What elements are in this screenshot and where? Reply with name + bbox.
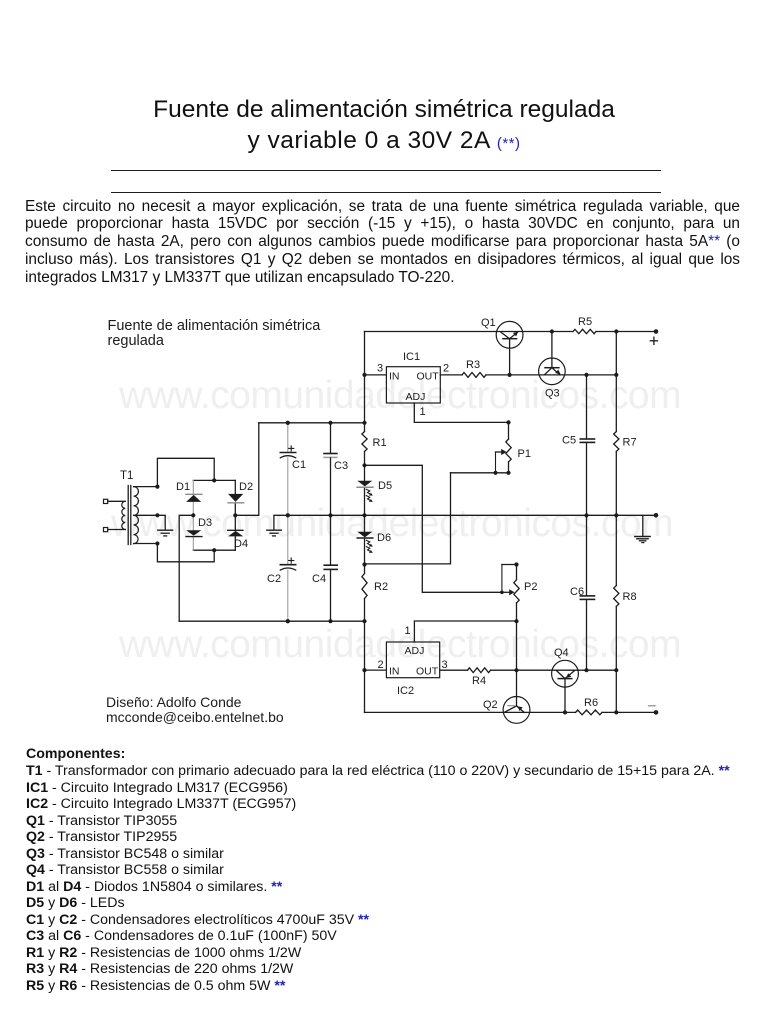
node C6 bottom	[584, 668, 588, 672]
wire primary bottom lead	[108, 529, 126, 531]
svg-text:Diseño: Adolfo Conde: Diseño: Adolfo Conde	[106, 694, 242, 710]
svg-text:D1: D1	[176, 481, 190, 493]
wire secondary top lead to bridge	[134, 458, 215, 486]
capacitor C6	[580, 515, 594, 670]
component line R1-R2	[26, 945, 301, 961]
component line Q3	[26, 846, 224, 862]
transistor Q3	[539, 332, 566, 385]
node R5 output junction	[614, 329, 618, 333]
IC1 regulator box	[386, 367, 440, 403]
node P1 wiper bottom	[493, 471, 497, 475]
title line 2	[0, 127, 768, 155]
wire top positive rail	[365, 331, 657, 333]
svg-text:R1: R1	[373, 437, 387, 449]
label minus output	[649, 705, 656, 707]
resistor R2	[362, 574, 367, 599]
svg-text:OUT: OUT	[416, 666, 439, 678]
transistor Q1	[496, 321, 523, 375]
wire P2 down to IC2 out node	[516, 621, 518, 670]
svg-text:D4: D4	[234, 538, 248, 550]
svg-text:OUT: OUT	[417, 371, 440, 383]
resistor R1	[362, 432, 367, 452]
diode D3	[186, 530, 202, 536]
svg-text:1: 1	[405, 625, 411, 637]
node P2 bottom	[514, 619, 518, 623]
component line R5-R6	[26, 978, 285, 994]
node C1 C2 lead junctions redraw	[286, 421, 290, 624]
node D6 bottom	[362, 562, 366, 566]
wire negative takeoff	[179, 515, 193, 621]
wire IC2 input	[365, 669, 387, 671]
schematic caption	[108, 318, 322, 349]
watermark row 1	[119, 374, 681, 418]
LED D6	[357, 532, 373, 553]
svg-text:Q1: Q1	[481, 317, 496, 329]
component line IC1	[26, 780, 288, 796]
node center tap	[155, 513, 159, 517]
positive output terminal node	[654, 329, 659, 334]
resistor R4	[468, 668, 491, 673]
transistor Q4	[552, 660, 579, 712]
title rule 1	[111, 170, 661, 171]
node R7 top	[614, 373, 618, 377]
svg-text:2: 2	[378, 659, 384, 671]
wire IC1 ADJ pin	[414, 403, 508, 422]
node secondary bottom	[155, 541, 159, 545]
resistor R8	[614, 515, 619, 712]
wire bridge top	[193, 479, 235, 481]
node bridge positive (D2-D4 junction)	[233, 513, 237, 517]
node C2 negative rail	[286, 619, 290, 623]
negative output terminal node	[654, 710, 659, 715]
wire IC1 input	[365, 374, 387, 376]
node C5 ground	[584, 513, 588, 517]
node R7-R8 ground	[614, 513, 618, 517]
svg-text:C1: C1	[292, 459, 306, 471]
node C3-C4 ground	[328, 513, 332, 517]
wire IC2 output to R4	[440, 669, 468, 671]
svg-text:Fuente de alimentación simétri: Fuente de alimentación simétrica	[108, 318, 322, 334]
svg-text:ADJ: ADJ	[405, 645, 425, 657]
designer credit text	[106, 694, 284, 725]
node Q2 base junction	[514, 668, 518, 672]
node R8 Q4 junction	[614, 668, 618, 672]
resistor R6	[576, 710, 603, 715]
svg-text:ADJ: ADJ	[406, 391, 426, 403]
node IC1 input	[362, 373, 366, 377]
node C4 negative rail	[328, 619, 332, 623]
transformer primary winding	[122, 501, 126, 529]
component line D1-D4	[26, 879, 282, 895]
paragraph line 2	[25, 215, 740, 233]
node C3 positive rail	[328, 421, 332, 425]
component line IC2	[26, 796, 296, 812]
node P2 top	[514, 562, 518, 566]
svg-text:2: 2	[443, 363, 449, 375]
diode D2	[228, 494, 244, 503]
svg-text:IN: IN	[389, 666, 400, 678]
svg-text:R3: R3	[466, 359, 480, 371]
wire P1 to D6 node	[365, 473, 451, 564]
node bridge top AC	[212, 478, 216, 482]
wire primary top lead	[108, 500, 126, 502]
title line 1	[0, 96, 768, 124]
component line T1	[26, 763, 730, 779]
potentiometer P1	[496, 422, 512, 472]
wire bridge right branch	[234, 480, 236, 550]
svg-text:D2: D2	[239, 481, 253, 493]
capacitor C5	[580, 375, 594, 515]
node bridge bottom AC	[212, 548, 216, 552]
wire bottom negative rail	[365, 711, 657, 713]
svg-text:IC2: IC2	[397, 685, 414, 697]
svg-text:C4: C4	[312, 573, 326, 585]
svg-text:D6: D6	[377, 532, 391, 544]
paragraph line 4	[25, 251, 740, 269]
node Q4 base bottom	[563, 710, 567, 714]
svg-text:P1: P1	[518, 448, 531, 460]
svg-text:C3: C3	[334, 460, 348, 472]
node secondary top	[155, 485, 159, 489]
svg-text:Q2: Q2	[483, 699, 498, 711]
component line R3-R4	[26, 961, 293, 977]
node Q1 base junction	[508, 373, 512, 377]
wire bridge left branch	[192, 480, 194, 550]
svg-text:1: 1	[420, 406, 426, 418]
capacitor C1	[280, 423, 295, 516]
node R8 bottom rail	[614, 710, 618, 714]
svg-text:D5: D5	[378, 480, 392, 492]
svg-text:R4: R4	[472, 675, 486, 687]
component line D5-D6	[26, 895, 125, 911]
capacitor C3	[324, 423, 337, 516]
node negative rail to R2 line	[362, 619, 366, 623]
wire IC1 output to R3	[440, 374, 462, 376]
svg-text:D3: D3	[198, 517, 212, 529]
node P2 wiper	[500, 591, 504, 595]
svg-text:3: 3	[377, 363, 383, 375]
wire P1 bottom link	[451, 472, 509, 474]
ground right symbol	[635, 537, 650, 543]
node ADJ P1 junction	[506, 420, 510, 424]
svg-text:R8: R8	[623, 591, 637, 603]
svg-text:3: 3	[442, 659, 448, 671]
wire negative rail	[179, 620, 364, 622]
diode D4	[228, 530, 244, 536]
wire positive rail	[259, 422, 365, 424]
svg-text:R7: R7	[623, 437, 637, 449]
component line Q4	[26, 862, 224, 878]
node C1 positive rail	[286, 421, 290, 425]
svg-text:IN: IN	[389, 371, 400, 383]
wire R1 node to P2 wiper	[365, 465, 502, 592]
wire R3 to Q3 emitter line	[486, 374, 616, 376]
wire bridge bottom	[193, 549, 235, 551]
svg-text:T1: T1	[120, 470, 133, 482]
node bridge negative (D1-D3 junction)	[191, 513, 195, 517]
transformer primary terminal square bottom	[104, 528, 108, 532]
node R1 bottom	[362, 463, 366, 467]
node C5 top	[584, 373, 588, 377]
svg-text:regulada: regulada	[108, 333, 165, 349]
svg-text:C6: C6	[570, 586, 584, 598]
svg-text:Q3: Q3	[545, 388, 560, 400]
components heading	[26, 746, 125, 762]
component line Q1	[26, 813, 177, 829]
transformer T1 core	[128, 486, 131, 545]
svg-text:R2: R2	[374, 581, 388, 593]
wire positive takeoff	[235, 423, 258, 516]
node IC2 input	[362, 668, 366, 672]
wire IC2 ADJ pin	[414, 621, 516, 642]
watermark row 2	[111, 502, 673, 546]
svg-text:C5: C5	[562, 435, 576, 447]
wire center tap	[134, 515, 166, 529]
node positive rail to R1 line	[362, 421, 366, 425]
wire secondary bottom lead to bridge	[134, 544, 215, 562]
svg-text:IC1: IC1	[403, 351, 420, 363]
paragraph line 3	[25, 233, 740, 251]
svg-text:C2: C2	[267, 573, 281, 585]
ground bus left symbol	[267, 530, 282, 536]
ground center tap	[158, 530, 173, 536]
svg-text:mcconde@ceibo.entelnet.bo: mcconde@ceibo.entelnet.bo	[106, 709, 284, 725]
LED D5	[357, 481, 373, 502]
potentiometer P2	[502, 565, 519, 622]
component line Q2	[26, 829, 177, 845]
wire R4 to Q4	[491, 669, 617, 671]
transistor Q2	[503, 670, 530, 723]
svg-text:Q4: Q4	[554, 647, 569, 659]
node D5-D6 ground	[362, 513, 366, 517]
ground output terminal node	[654, 513, 659, 518]
resistor R5	[573, 329, 596, 333]
watermark row 3	[119, 623, 681, 667]
IC2 regulator box	[386, 642, 439, 678]
label plus output	[650, 337, 657, 344]
node C1-C2 ground	[286, 513, 290, 517]
transformer primary terminal square top	[104, 499, 108, 503]
svg-text:P2: P2	[524, 581, 537, 593]
node P1 bottom	[506, 471, 510, 475]
resistor R3	[462, 373, 486, 378]
wire left vertical main line	[364, 332, 366, 713]
title rule 2	[111, 192, 661, 193]
capacitor C4	[324, 515, 337, 621]
resistor R7	[614, 332, 619, 516]
node Q3 base tap	[550, 329, 554, 333]
diode D1	[186, 494, 202, 502]
paragraph line 5	[25, 269, 740, 287]
svg-text:R5: R5	[578, 316, 592, 328]
component line C1-C2	[26, 912, 369, 928]
component line C3-C6	[26, 928, 337, 944]
wire ground bus	[274, 515, 656, 529]
wire ground symbol drop right	[642, 515, 644, 536]
transformer secondary winding	[134, 487, 139, 544]
svg-text:R6: R6	[584, 697, 598, 709]
capacitor C2	[280, 515, 295, 621]
paragraph line 1	[25, 198, 740, 216]
